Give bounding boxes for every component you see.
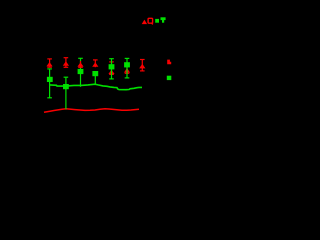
data column 3 red triangle marker [77, 62, 83, 66]
data column 1 green square marker [47, 77, 53, 82]
data column 1 green error bar [47, 69, 52, 98]
data column 7 red triangle marker [139, 64, 145, 69]
data column 1 red triangle marker [46, 62, 52, 66]
data column 1 red error bar [47, 59, 52, 67]
legend red letter Q [148, 18, 153, 24]
data column 2 red error bar [64, 58, 69, 68]
data column 5 red triangle marker [108, 70, 114, 74]
legend green letter T [161, 17, 166, 22]
data column 6 red error bar [125, 62, 130, 73]
data column 4 green error bar [94, 71, 96, 84]
data column 5 green square marker [109, 64, 115, 69]
data column 5 green error bar [109, 59, 114, 79]
data column 7 red error bar [140, 60, 145, 71]
data column 5 red error bar [109, 62, 114, 75]
data column 6 green square marker [124, 62, 130, 67]
legend red triangle [142, 20, 147, 25]
right side red triangle marker [167, 60, 171, 65]
data column 3 green square marker [78, 69, 84, 74]
green model curve [50, 84, 142, 90]
data column 2 green square marker [63, 84, 69, 89]
right side green square marker [167, 76, 172, 80]
data column 4 green square marker [92, 71, 98, 76]
data column 4 red error bar [93, 60, 98, 67]
data column 2 green error bar [64, 77, 69, 109]
data column 6 red triangle marker [124, 68, 130, 73]
data column 3 red error bar [78, 61, 83, 67]
red model curve [44, 109, 139, 112]
legend green square [155, 19, 159, 23]
data column 3 green error bar [78, 58, 83, 87]
data column 4 red triangle marker [92, 62, 98, 67]
data column 2 red triangle marker [63, 61, 69, 66]
data column 6 green error bar [125, 58, 130, 78]
